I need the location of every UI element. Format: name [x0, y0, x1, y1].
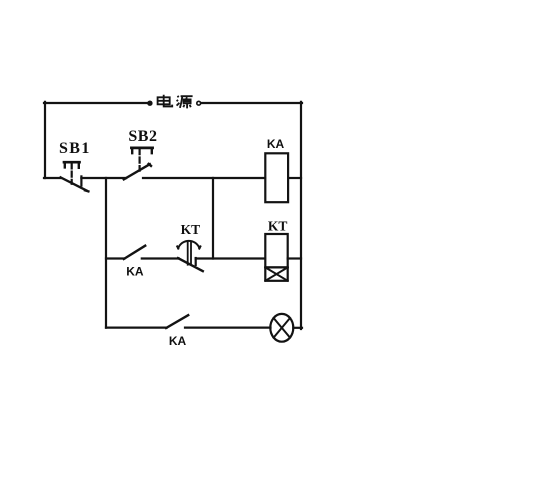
KT delay arc — [177, 241, 200, 249]
pushbutton SB1 (normally-closed) — [44, 162, 88, 191]
wire rung1 SB2 to KA coil — [143, 177, 265, 179]
contact KT (normally-closed, delayed opening) — [177, 241, 203, 271]
node junction rung1/seal-in column — [212, 178, 214, 259]
SB2 moving blade — [124, 164, 151, 180]
wire top supply bus right segment — [201, 102, 302, 104]
wire rung3 KA contact to lamp — [185, 327, 271, 329]
wire rung3 from left column to KA contact — [106, 327, 167, 329]
KT static contact bar — [195, 258, 197, 265]
contact KA seal-in (normally-open) — [106, 246, 179, 259]
wire rung1 SB1 to SB2 — [81, 177, 126, 179]
node junction rung1/left branch column — [105, 178, 107, 328]
relay coil KA — [265, 153, 288, 202]
wire KA coil to right bus — [288, 177, 301, 179]
KA contact blade — [124, 246, 145, 259]
KT delay actuator double bar — [188, 241, 191, 264]
time relay coil KT — [265, 234, 287, 281]
SB1 moving blade — [61, 177, 89, 191]
KT coil rectangle — [265, 234, 287, 267]
SB1 actuator dashed link — [71, 163, 73, 183]
label 电源 (power source) — [158, 95, 193, 109]
SB1 actuator T-bar — [64, 161, 80, 164]
svg-text:KA: KA — [126, 265, 144, 279]
KT coil delay element box with X — [265, 267, 287, 280]
wire lamp to right bus — [293, 327, 302, 329]
SB1 actuator T-bar end ticks — [65, 163, 79, 168]
wire rung2 from left column to KA contact — [106, 257, 124, 259]
wire top supply bus left segment — [44, 102, 148, 104]
SB1 static contact bar — [80, 176, 82, 185]
svg-text:KA: KA — [169, 334, 187, 348]
KA coil rectangle — [265, 153, 288, 202]
wire rung1 into SB1 — [44, 177, 61, 179]
svg-text:KT: KT — [181, 222, 201, 237]
node power tap right (small circle) — [197, 101, 201, 105]
wire rung2 KA contact to KT contact — [142, 257, 179, 259]
SB2 actuator dashed link — [139, 149, 141, 171]
svg-text:KT: KT — [268, 219, 288, 234]
contact KA lamp branch (normally-open) — [106, 315, 271, 328]
svg-text:KA: KA — [267, 137, 285, 151]
SB2 actuator T-bar — [131, 147, 152, 150]
KT contact blade — [178, 258, 203, 271]
node power tap left (dot) — [147, 101, 152, 106]
svg-text:SB2: SB2 — [128, 128, 157, 145]
pushbutton SB2 (normally-open) — [124, 148, 153, 180]
wire KT coil to right bus — [288, 257, 301, 259]
wire right supply drop — [300, 102, 302, 329]
wire rung2 KT contact to KT coil — [196, 257, 265, 259]
lamp HL (indicator) — [270, 314, 293, 342]
SB2 actuator T-bar end ticks — [132, 148, 152, 153]
wire left supply drop — [44, 102, 46, 178]
svg-text:SB1: SB1 — [59, 140, 91, 157]
KA lamp-branch contact blade — [166, 315, 188, 328]
